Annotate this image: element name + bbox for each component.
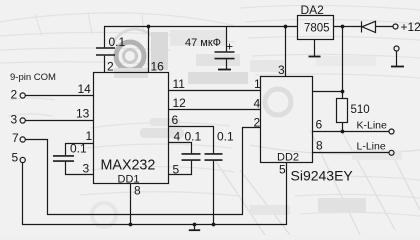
capacitor C2 loop at MAX232 pins 4,5: lower [169,161,192,175]
wire: GND terminal lead [396,51,398,66]
capacitor C1 loop at MAX232 pins 1,3: lower [66,162,94,175]
ground under GND terminal [391,66,404,68]
capacitor plates at pin6 [205,154,223,160]
wire: COM pin2 to MAX232 pin 14 [26,95,94,97]
svg-text:DA2: DA2 [301,3,325,17]
wire: 510 resistor branch from +12 [342,27,344,99]
svg-text:L-Line: L-Line [357,141,386,153]
svg-text:5: 5 [173,163,180,177]
svg-text:5: 5 [279,163,286,177]
ground bar under rail stub [189,229,200,231]
wire: MAX232 pin 6 to 0.1 cap [169,127,214,154]
svg-text:6: 6 [316,118,323,132]
capacitor plates C2 (pins4-5) [182,154,201,160]
svg-text:7805: 7805 [304,23,330,35]
wire: 7805 output to diode [334,26,362,28]
svg-text:2: 2 [107,60,114,74]
svg-text:8: 8 [316,139,323,153]
svg-text:0.1: 0.1 [217,130,234,144]
junction dot DD2 pin3/+5 [284,25,288,29]
COM pin 7 circle [20,137,25,142]
ground under 7805 [309,56,321,58]
junction dot pin6-cap/ground rail [212,223,216,227]
wire: COM pin5 ground rail to DD2 pin 5 [23,163,287,225]
terminal +12 circle [393,24,398,29]
wire: DD2 pin 3 vertical [285,27,287,77]
ground stub on ground rail [194,225,196,230]
svg-text:11: 11 [173,77,186,91]
COM pin 5 circle [20,157,25,162]
svg-text:2: 2 [254,116,261,130]
wire: COM pin3 to MAX232 pin 13 [26,120,94,122]
IC DD1 MAX232 box [94,73,169,184]
car wheel (watermark) [116,42,144,70]
svg-text:12: 12 [173,96,187,110]
COM pin 3 circle [20,118,25,123]
terminal GND circle [394,46,399,51]
svg-text:+12: +12 [401,20,420,34]
wire: MAX232 pin 11 to DD2 pin 1 [169,90,261,92]
svg-text:13: 13 [76,107,90,121]
diode VD [362,21,376,32]
wire: L-Line [313,152,390,154]
svg-text:4: 4 [174,130,181,144]
svg-text:47 мкФ: 47 мкФ [185,37,221,49]
svg-text:3: 3 [83,162,90,176]
svg-text:K-Line: K-Line [357,120,388,132]
svg-text:MAX232: MAX232 [101,158,156,174]
wire: MAX232 pin 12 to DD2 pin 4 [169,109,261,111]
wire: 7805 ground lead [314,40,316,57]
wire: MAX232 pin 16 vertical [148,27,150,73]
wire: pin6 cap lower lead to ground rail [213,161,215,225]
IC DD2 Si9243EY box [261,77,313,163]
wire: diode to +12 terminal [376,26,394,28]
wire: 510 resistor to K-Line [342,123,344,132]
svg-text:9-pin COM: 9-pin COM [10,72,56,83]
terminal K-Line circle [389,129,394,134]
junction dot ground stub/rail [193,223,197,227]
resistor 510 body [337,99,348,123]
svg-text:4: 4 [254,97,261,111]
svg-text:1: 1 [254,77,261,91]
wire: COM pin7 to DD2 pin 2 [26,128,261,215]
junction dot 510/+12 [341,25,345,29]
svg-text:5: 5 [12,151,19,165]
svg-text:0.1: 0.1 [109,35,126,49]
COM pin 2 circle [20,93,25,98]
wire: K-Line [313,131,390,133]
svg-text:8: 8 [134,184,141,198]
svg-text:6: 6 [172,113,179,127]
wire: DD2 right pin to +12/510 branch [313,91,343,93]
svg-text:3: 3 [11,113,18,127]
capacitor C (0.1) at MAX232 pin 2: lower lead [104,56,106,73]
svg-text:3: 3 [278,63,285,77]
svg-text:14: 14 [78,82,92,96]
wire: +5V top rail [104,26,298,28]
ground under 47uF [218,69,231,71]
junction dot 510/K-Line [341,130,345,134]
svg-text:0.1: 0.1 [185,130,202,144]
junction dot DD2 pin7/510 branch [341,90,345,94]
svg-text:+: + [226,40,233,54]
svg-text:DD2: DD2 [277,152,299,164]
svg-text:510: 510 [351,104,370,116]
capacitor 47uF upper lead [226,27,228,52]
capacitor plates 0.1 at pin2 [96,48,115,55]
regulator DA2 7805 box [298,16,334,40]
terminal L-Line circle [389,150,394,155]
capacitor C1 loop at MAX232 pins 1,3: upper [66,144,94,156]
svg-text:Si9243EY: Si9243EY [291,168,354,184]
svg-text:0.1: 0.1 [70,142,87,156]
svg-text:16: 16 [151,60,165,74]
capacitor plates 47uF [215,52,235,59]
capacitor C2 loop at MAX232 pins 4,5: upper [169,143,192,154]
svg-text:2: 2 [11,88,18,102]
junction dot pin16/+5 [147,25,151,29]
wire: MAX232 pin 8 to ground rail [130,184,132,225]
junction dot pin8/ground rail [129,223,133,227]
capacitor plates C1 (pins1-3) [53,156,74,161]
capacitor C (0.1) at MAX232 pin 2: upper lead [104,27,106,48]
capacitor 47uF lower lead [226,59,228,69]
svg-text:7: 7 [12,131,19,145]
